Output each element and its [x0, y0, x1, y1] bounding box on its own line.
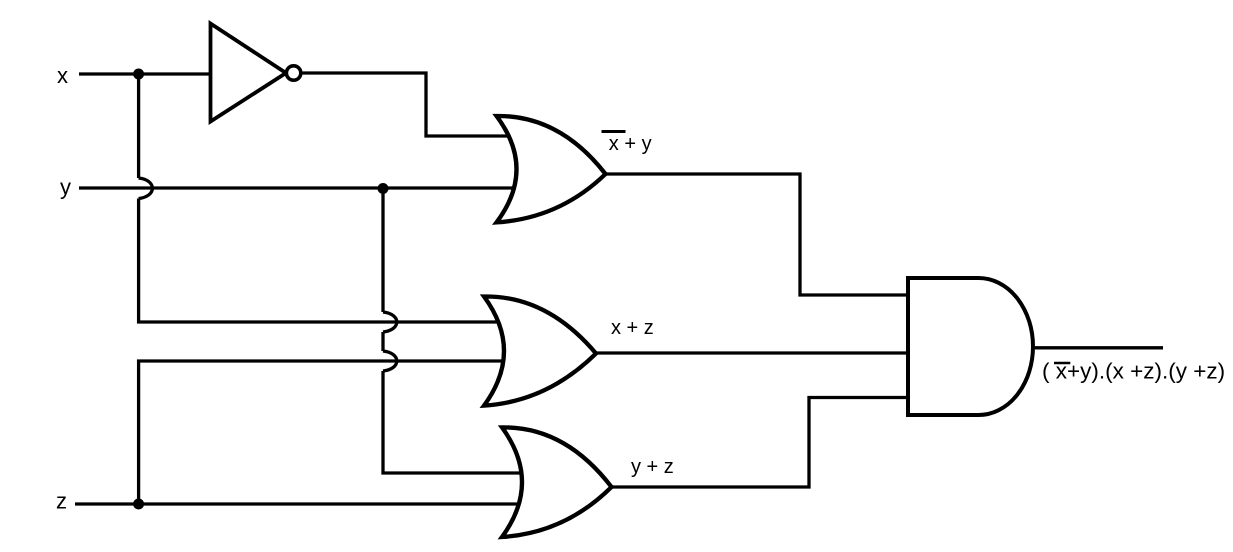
wire z branch vertical and horizontal to OR2 bottom input	[139, 361, 505, 504]
AND gate U5	[908, 278, 1033, 415]
wire y branch vertical segment 1	[381, 188, 384, 312]
wire OR3 output to AND bottom input	[612, 398, 913, 488]
wire y input	[79, 186, 520, 189]
wire hop: y branch over x branch	[383, 312, 397, 332]
wire OR2 output to AND middle input	[596, 351, 912, 354]
NOT gate U1 triangle	[211, 24, 287, 122]
wire AND output	[1033, 346, 1163, 349]
svg-text:x + z: x + z	[611, 317, 654, 339]
OR gate OR1 (x&#772;+y)	[497, 116, 606, 222]
wire z input	[75, 502, 525, 505]
svg-text:z: z	[56, 489, 67, 514]
junction dot on z wire	[133, 499, 144, 510]
wire x branch vertical upper	[137, 74, 140, 178]
overline of x in output label	[1054, 362, 1070, 365]
wire OR1 output to AND top input	[606, 174, 913, 295]
OR gate OR3 (y+z)	[502, 427, 612, 537]
svg-text:x + y: x + y	[609, 133, 652, 155]
svg-text:y + z: y + z	[631, 456, 674, 478]
wire y branch vertical segment 2	[381, 332, 384, 351]
wire y branch vertical segment 3 and horizontal to OR3 top input	[383, 371, 528, 473]
svg-text:y: y	[60, 175, 71, 200]
NOT gate U1 bubble	[286, 66, 300, 80]
junction dot on x wire	[133, 69, 144, 80]
wire x input	[79, 72, 215, 75]
junction dot on y wire	[378, 183, 389, 194]
wire hop: x branch over y wire	[139, 178, 153, 199]
wire NOT gate output to OR1 top input	[300, 73, 512, 136]
overline of x in OR1 label	[602, 130, 626, 133]
svg-text:x: x	[57, 63, 68, 88]
wire hop: y branch over z branch	[383, 351, 397, 371]
OR gate OR2 (x+z)	[484, 296, 596, 405]
wire x branch vertical lower and horizontal to OR2 top input	[139, 199, 505, 323]
